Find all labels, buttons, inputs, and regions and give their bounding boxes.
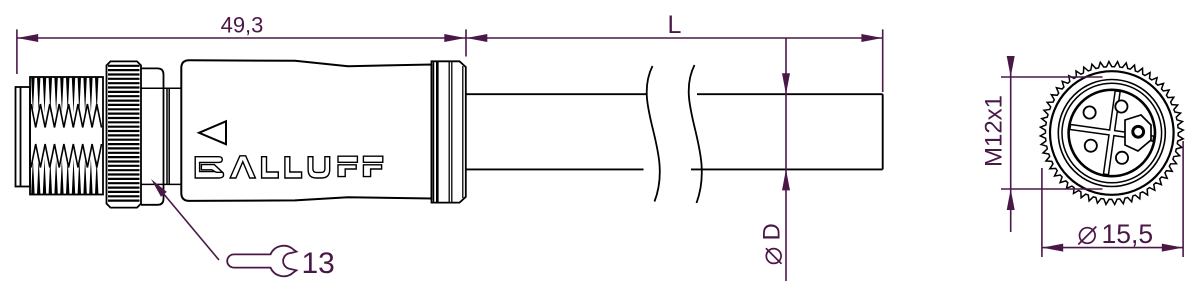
connector tip cylinder: [16, 87, 31, 187]
washer ring and neck: [164, 88, 182, 184]
face view: key ring contact: [1133, 126, 1144, 137]
diameter 15,5 extension lines: [1042, 141, 1183, 257]
cable gland collar: [432, 61, 466, 202]
diameter 15,5 label: [1078, 219, 1153, 249]
M12x1 dimension extension lines: [1001, 77, 1103, 189]
svg-text:13: 13: [302, 247, 335, 280]
wrench symbol: [227, 246, 296, 276]
hex wrench flats (SW13): [141, 68, 164, 204]
face view: cross divider: [1064, 85, 1159, 180]
BALLUFF logo: [195, 156, 383, 178]
svg-text:15,5: 15,5: [1102, 219, 1154, 249]
M12x1 dimension line with outside arrows: [1007, 56, 1015, 232]
cable: [466, 94, 883, 169]
cable diameter label D: [759, 223, 786, 264]
cable break lines: [647, 65, 702, 203]
face view: coding key polygon: [1125, 115, 1151, 151]
dimension 49,3 line with arrows: [17, 34, 466, 42]
svg-text:D: D: [759, 223, 786, 240]
diameter 15,5 dimension line: [1042, 244, 1183, 252]
face view: thread circle: [1062, 83, 1162, 183]
face view: knurled ring (scalloped): [1040, 62, 1183, 205]
face view: inner ring of knurl: [1050, 71, 1174, 195]
svg-text:M12x1: M12x1: [981, 95, 1008, 167]
orientation triangle marker: [199, 121, 226, 144]
face view: insert circle: [1069, 90, 1155, 176]
svg-text:49,3: 49,3: [221, 13, 264, 38]
knurled coupling nut: [107, 61, 142, 207]
wrench size leader arrow: [155, 184, 219, 261]
cable diameter dimension line: [782, 38, 790, 281]
shared extension line at collar: [465, 29, 467, 56]
dimension L extension line right: [882, 29, 884, 92]
face view: pin holes: [1084, 100, 1129, 163]
svg-text:L: L: [668, 11, 682, 39]
face view: shell circle: [1058, 80, 1165, 187]
M12 thread section: [30, 77, 103, 195]
dimension L line with arrows: [466, 34, 883, 42]
connector body (handle): [181, 60, 431, 201]
dimension 49,3 extension line left: [16, 29, 18, 74]
